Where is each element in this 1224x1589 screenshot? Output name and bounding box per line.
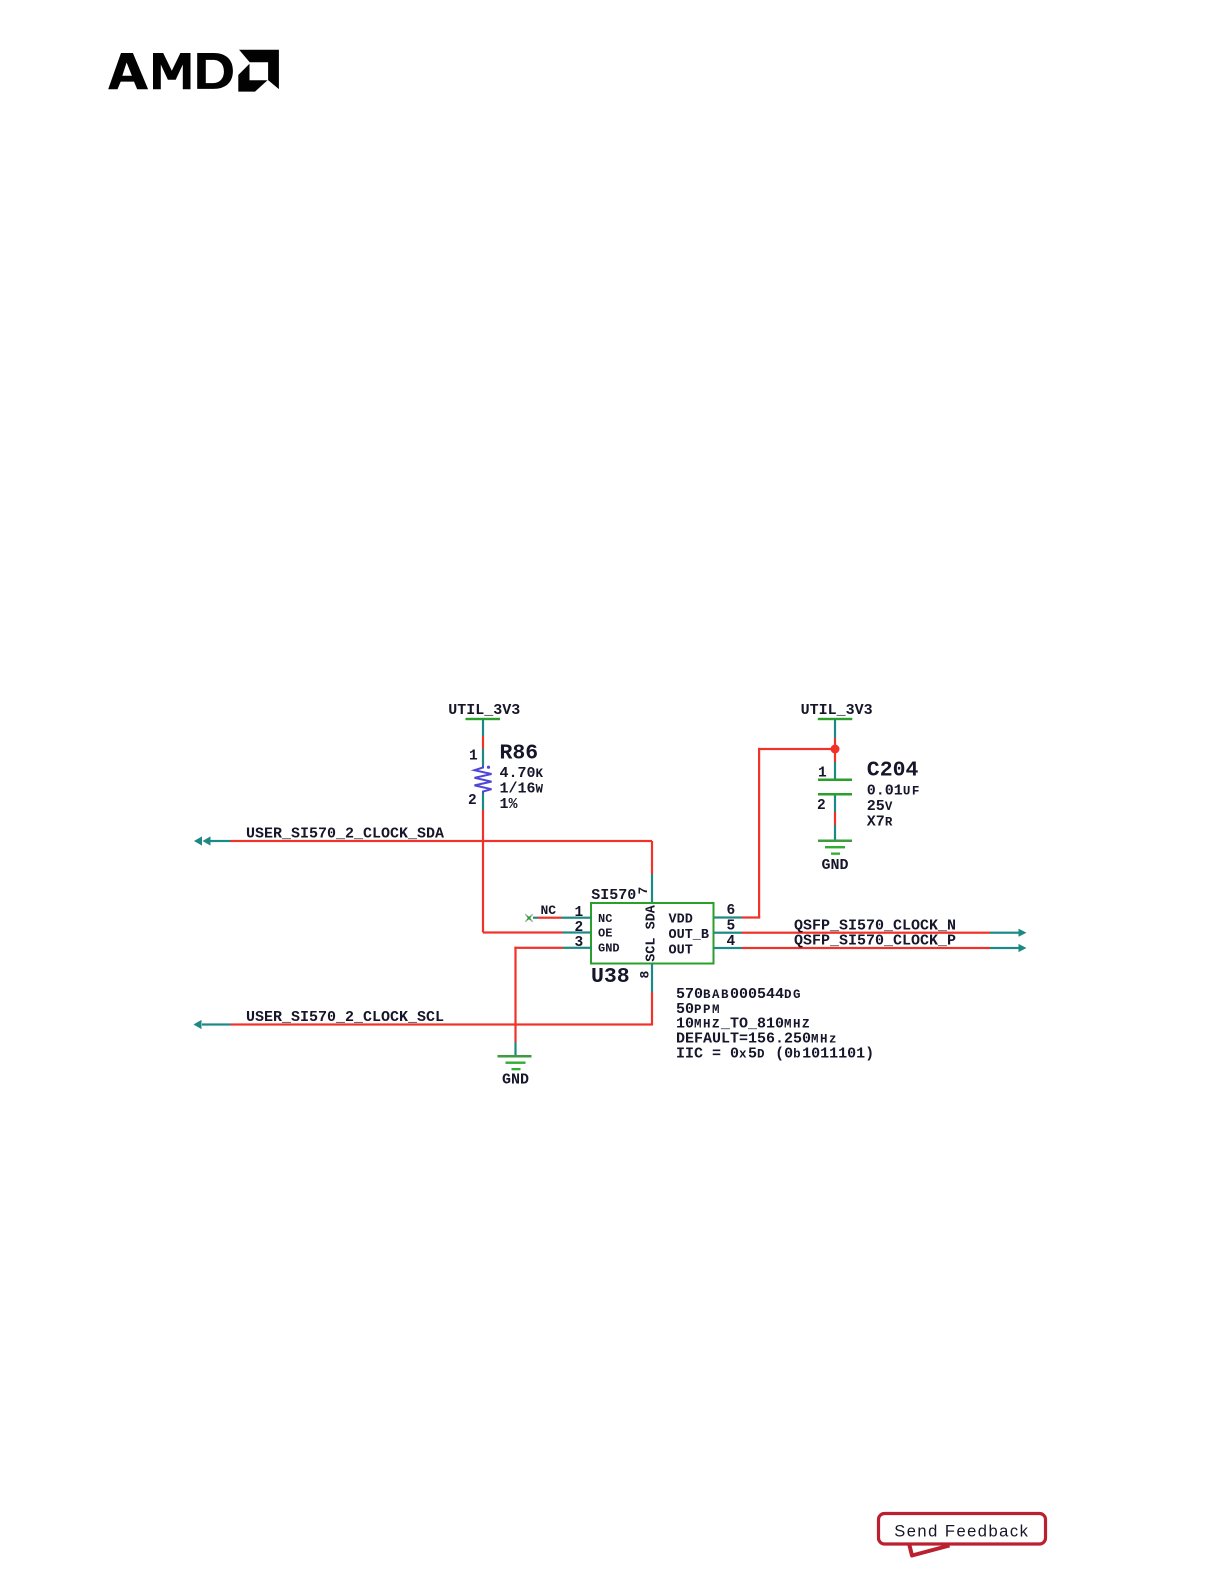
net USER_SI570_2_CLOCK_SCL xyxy=(194,1009,653,1029)
svg-text:NC: NC xyxy=(541,903,557,918)
wire UTIL_3V3 bar to R86 pin 1 xyxy=(482,719,484,766)
svg-text:USER_SI570_2_CLOCK_SDA: USER_SI570_2_CLOCK_SDA xyxy=(246,826,444,843)
svg-text:570BAB000544DG: 570BAB000544DG xyxy=(676,986,802,1003)
wire junction to U38 VDD pin 6 xyxy=(714,748,836,919)
power symbol UTIL_3V3 (right, above C204) xyxy=(801,702,873,720)
capacitor C204 xyxy=(818,762,852,840)
svg-text:R86: R86 xyxy=(500,742,539,766)
net QSFP_SI570_CLOCK_P xyxy=(714,933,1027,953)
svg-text:UTIL_3V3: UTIL_3V3 xyxy=(801,702,873,719)
svg-text:C204: C204 xyxy=(867,759,919,783)
svg-text:USER_SI570_2_CLOCK_SCL: USER_SI570_2_CLOCK_SCL xyxy=(246,1009,444,1026)
svg-text:X7R: X7R xyxy=(867,813,894,830)
svg-text:2: 2 xyxy=(468,793,477,809)
wire SDA down to U38 pin 7 xyxy=(651,841,653,903)
net QSFP_SI570_CLOCK_N xyxy=(714,918,1027,937)
svg-text:1/16W: 1/16W xyxy=(500,781,545,798)
no-connect X on pin 1 xyxy=(525,914,532,921)
svg-text:NC: NC xyxy=(598,912,612,926)
svg-text:2: 2 xyxy=(575,920,584,936)
svg-text:2: 2 xyxy=(817,798,826,814)
svg-text:7: 7 xyxy=(636,887,651,895)
AMD logo xyxy=(108,50,279,92)
wire UTIL_3V3 bar to junction xyxy=(834,719,836,762)
ground below U38 pin 3 xyxy=(498,1055,532,1089)
svg-text:U38: U38 xyxy=(591,965,630,989)
svg-text:6: 6 xyxy=(727,903,736,919)
svg-text:IIC = 0x5D (0b1011101): IIC = 0x5D (0b1011101) xyxy=(676,1046,874,1063)
IC U38 body xyxy=(591,903,714,964)
ground below C204 xyxy=(818,840,852,875)
svg-text:UTIL_3V3: UTIL_3V3 xyxy=(448,702,520,719)
power symbol UTIL_3V3 (left, above R86) xyxy=(448,702,520,720)
wire R86 pin 2 down across SDA to OE xyxy=(482,794,592,934)
svg-text:OUT: OUT xyxy=(669,943,693,958)
svg-text:SCL SDA: SCL SDA xyxy=(645,904,660,962)
svg-text:GND: GND xyxy=(822,857,849,874)
svg-text:1: 1 xyxy=(818,765,827,781)
svg-text:4.70K: 4.70K xyxy=(500,765,545,782)
svg-text:Send Feedback: Send Feedback xyxy=(894,1523,1029,1541)
svg-text:1%: 1% xyxy=(500,796,519,813)
svg-text:1: 1 xyxy=(469,749,478,765)
junction node (red dot) xyxy=(831,745,840,754)
U38 part info text xyxy=(676,986,874,1063)
svg-text:OE: OE xyxy=(598,926,612,940)
svg-text:8: 8 xyxy=(638,971,653,979)
svg-text:QSFP_SI570_CLOCK_P: QSFP_SI570_CLOCK_P xyxy=(794,933,956,950)
svg-text:GND: GND xyxy=(502,1072,529,1089)
resistor R86 xyxy=(475,766,492,794)
svg-text:VDD: VDD xyxy=(669,912,693,927)
wire SCL up to U38 pin 8 xyxy=(651,964,653,1026)
wire NC to pin 1 xyxy=(533,917,592,919)
Send Feedback button xyxy=(879,1514,1046,1556)
net USER_SI570_2_CLOCK_SDA xyxy=(194,826,652,846)
svg-text:OUT_B: OUT_B xyxy=(669,928,710,943)
svg-text:SI570: SI570 xyxy=(591,887,636,904)
wire U38 pin 3 to ground xyxy=(514,947,591,1056)
svg-text:GND: GND xyxy=(598,942,620,956)
